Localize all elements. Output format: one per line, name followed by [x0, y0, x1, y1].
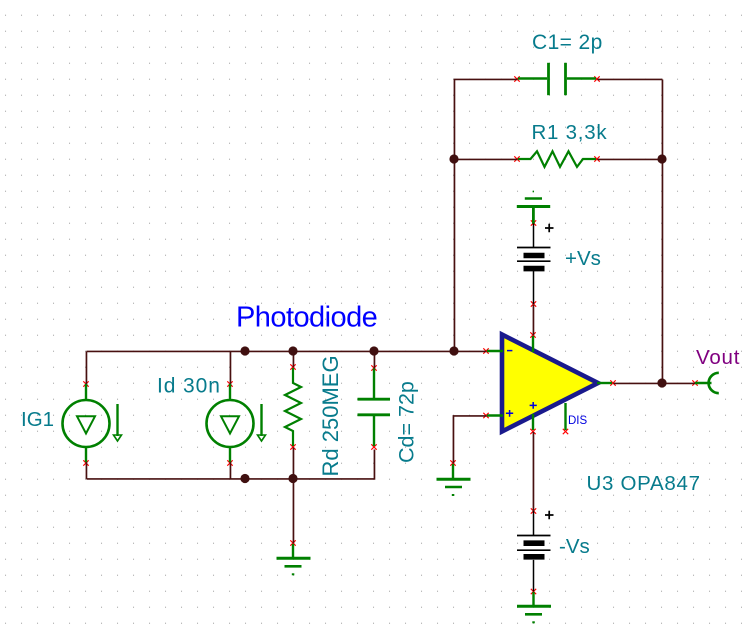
wire top rail from IG1 to op-amp inverting input: [86, 350, 486, 352]
wire output: [613, 382, 695, 384]
svg-text:+Vs: +Vs: [565, 247, 601, 270]
wire Cd top: [373, 351, 375, 368]
pin Id bottom: [227, 460, 232, 465]
wire IG1 bottom vertical: [85, 461, 87, 479]
pin Id top: [227, 381, 232, 386]
op-amp DIS stub: [564, 403, 566, 430]
wire Id bottom vertical: [229, 461, 231, 479]
op-amp plus sign (power): [530, 402, 537, 409]
pin U3 DIS: [563, 429, 568, 434]
battery -Vs plus mark: [545, 511, 554, 520]
wire Id top vertical: [229, 351, 231, 386]
wire to ground under Rd: [292, 479, 294, 544]
wire R1 right: [597, 158, 662, 160]
svg-text:Cd= 72p: Cd= 72p: [395, 381, 419, 463]
pin +Vs bottom: [531, 301, 536, 306]
junction on input net above Rd: [288, 346, 297, 355]
resistor R1 3,3k: [518, 151, 596, 167]
wire bottom rail: [86, 449, 374, 479]
pin Cd bottom: [371, 444, 376, 449]
pin Rd top: [290, 364, 295, 369]
pin U3 inverting input: [483, 348, 488, 353]
svg-text:IG1: IG1: [21, 408, 54, 431]
pin R1 right: [594, 156, 599, 161]
ground under -Vs: [517, 592, 551, 622]
op-amp input stubs: [487, 351, 503, 416]
junction on bottom rail below Rd: [288, 474, 297, 483]
wire C1 right to right rail: [597, 78, 662, 80]
wire op-amp to -Vs: [532, 432, 534, 512]
pin U3 output: [610, 380, 615, 385]
current source IG1: [63, 384, 122, 462]
pin -Vs top: [531, 508, 536, 513]
battery +Vs plus mark: [545, 224, 554, 233]
wire Vout terminal stub: [695, 382, 712, 385]
svg-text:U3 OPA847: U3 OPA847: [587, 472, 701, 495]
pin C1 right: [594, 76, 599, 81]
wire battery -Vs leads (black): [533, 511, 535, 592]
svg-text:C1= 2p: C1= 2p: [532, 31, 603, 54]
svg-text:Photodiode: Photodiode: [236, 302, 377, 334]
svg-text:Vout: Vout: [696, 346, 740, 369]
pin +Vs ground side: [531, 220, 536, 225]
op-amp minus sign: [507, 350, 512, 352]
wire Rd bottom: [292, 447, 294, 479]
pin IG1 bottom: [83, 460, 88, 465]
wire noninverting input: [453, 416, 486, 464]
pin Cd top: [371, 365, 376, 370]
ground under Rd: [277, 544, 311, 574]
capacitor Cd= 72p: [358, 369, 391, 447]
capacitor C1: [518, 63, 596, 95]
junction on bottom rail below Id: [240, 474, 249, 483]
resistor Rd 250MEG: [285, 368, 301, 446]
pin -Vs ground side: [531, 589, 536, 594]
pin Vout terminal: [692, 380, 697, 385]
ground above +Vs (inverted): [517, 192, 550, 224]
op-amp power stubs: [532, 336, 534, 430]
pin U3 V-: [530, 429, 535, 434]
svg-text:Rd 250MEG: Rd 250MEG: [318, 355, 343, 476]
op-amp output stub: [597, 382, 612, 384]
op-amp U3: [502, 335, 598, 432]
pin ground at noninverting input: [450, 460, 455, 465]
junction on input net above Id: [240, 346, 249, 355]
pin R1 left: [514, 156, 519, 161]
junction output net / feedback right rail: [657, 378, 666, 387]
svg-text:Id 30n: Id 30n: [157, 375, 221, 398]
wire R1 left: [454, 158, 517, 160]
pin U3 noninverting input: [483, 413, 488, 418]
wire battery +Vs leads (black): [533, 223, 535, 304]
pin IG1 top: [83, 381, 88, 386]
junction R1 left / feedback left rail: [449, 154, 458, 163]
pin U3 V+: [530, 332, 535, 337]
battery -Vs: [517, 536, 551, 557]
wire feedback left rail: [454, 79, 517, 351]
junction input net / feedback left rail: [449, 346, 458, 355]
wire IG1 top vertical: [85, 351, 87, 386]
pin ground under Rd: [290, 540, 295, 545]
junction R1 right / feedback right rail: [657, 154, 666, 163]
pin C1 left: [514, 76, 519, 81]
wire Rd top: [292, 351, 294, 367]
svg-text:-Vs: -Vs: [559, 535, 590, 558]
wire +Vs to op-amp: [532, 304, 534, 335]
junction on input net above Cd: [369, 346, 378, 355]
svg-text:R1 3,3k: R1 3,3k: [532, 121, 608, 144]
battery +Vs: [517, 248, 551, 269]
pin Rd bottom: [290, 444, 295, 449]
svg-text:DIS: DIS: [568, 415, 588, 427]
output terminal Vout: [709, 373, 719, 393]
wire feedback right rail: [661, 79, 663, 383]
current source Id: [207, 384, 266, 462]
op-amp plus sign (noninverting): [506, 410, 513, 417]
ground at noninverting input: [437, 464, 471, 495]
